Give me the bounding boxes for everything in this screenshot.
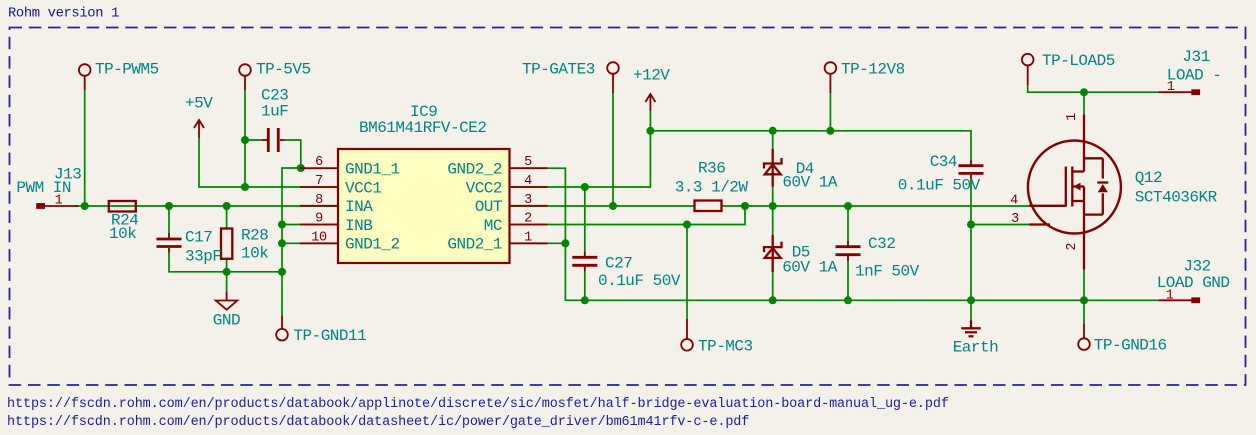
svg-text:1: 1 — [1065, 113, 1080, 121]
svg-text:33pF: 33pF — [185, 248, 221, 266]
svg-text:1: 1 — [55, 194, 63, 209]
svg-text:https://fscdn.rohm.com/en/prod: https://fscdn.rohm.com/en/products/datab… — [7, 415, 749, 430]
svg-text:2: 2 — [1065, 243, 1080, 251]
svg-text:TP-12V8: TP-12V8 — [841, 61, 905, 79]
svg-text:3: 3 — [524, 193, 532, 208]
svg-text:Rohm version 1: Rohm version 1 — [8, 6, 119, 22]
svg-text:GND2_2: GND2_2 — [447, 161, 502, 179]
svg-text:3: 3 — [1011, 212, 1019, 227]
svg-text:OUT: OUT — [475, 198, 502, 216]
svg-text:10: 10 — [311, 230, 327, 245]
svg-text:0.1uF 50V: 0.1uF 50V — [598, 272, 681, 290]
svg-text:TP-GND16: TP-GND16 — [1094, 337, 1167, 355]
svg-text:TP-LOAD5: TP-LOAD5 — [1042, 52, 1115, 70]
svg-text:4: 4 — [1010, 194, 1018, 209]
svg-text:+5V: +5V — [185, 95, 213, 113]
svg-text:BM61M41RFV-CE2: BM61M41RFV-CE2 — [359, 119, 486, 137]
svg-text:J32: J32 — [1183, 257, 1210, 275]
svg-text:1: 1 — [1167, 80, 1175, 95]
svg-text:C34: C34 — [930, 153, 957, 171]
svg-text:R28: R28 — [241, 227, 268, 245]
svg-text:7: 7 — [315, 174, 323, 189]
svg-text:SCT4036KR: SCT4036KR — [1135, 189, 1218, 207]
svg-text:2: 2 — [524, 212, 532, 227]
svg-text:GND: GND — [213, 312, 240, 330]
svg-text:1: 1 — [1166, 288, 1174, 303]
svg-text:1: 1 — [524, 230, 532, 245]
svg-text:PWM IN: PWM IN — [16, 179, 71, 197]
svg-text:1nF 50V: 1nF 50V — [855, 263, 920, 281]
svg-text:MC: MC — [484, 217, 502, 235]
svg-text:0.1uF 50V: 0.1uF 50V — [898, 177, 981, 195]
svg-text:C17: C17 — [185, 229, 212, 247]
svg-text:60V 1A: 60V 1A — [782, 259, 838, 277]
svg-text:GND1_1: GND1_1 — [345, 161, 400, 179]
svg-text:R36: R36 — [698, 160, 725, 178]
svg-text:C32: C32 — [868, 235, 895, 253]
svg-text:6: 6 — [315, 155, 323, 170]
svg-text:GND2_1: GND2_1 — [447, 236, 502, 254]
svg-text:C27: C27 — [605, 255, 632, 273]
svg-text:8: 8 — [315, 193, 323, 208]
svg-text:Q12: Q12 — [1135, 169, 1162, 187]
svg-text:https://fscdn.rohm.com/en/prod: https://fscdn.rohm.com/en/products/datab… — [7, 397, 949, 412]
svg-text:J31: J31 — [1182, 48, 1209, 66]
svg-text:10k: 10k — [109, 225, 136, 243]
svg-text:VCC1: VCC1 — [345, 179, 381, 197]
svg-text:TP-5V5: TP-5V5 — [256, 61, 311, 79]
svg-text:4: 4 — [524, 174, 532, 189]
svg-text:3.3 1/2W: 3.3 1/2W — [675, 179, 749, 197]
svg-text:TP-MC3: TP-MC3 — [698, 337, 753, 355]
svg-text:GND1_2: GND1_2 — [345, 236, 400, 254]
svg-text:1uF: 1uF — [261, 103, 288, 121]
svg-text:9: 9 — [315, 212, 323, 227]
svg-text:TP-PWM5: TP-PWM5 — [95, 61, 159, 79]
svg-text:TP-GATE3: TP-GATE3 — [522, 61, 595, 79]
svg-text:5: 5 — [524, 155, 532, 170]
svg-text:TP-GND11: TP-GND11 — [293, 327, 366, 345]
svg-text:VCC2: VCC2 — [466, 179, 502, 197]
svg-text:INA: INA — [345, 198, 373, 216]
svg-text:10k: 10k — [241, 245, 268, 263]
svg-text:Earth: Earth — [953, 338, 999, 356]
svg-text:INB: INB — [345, 217, 372, 235]
svg-text:+12V: +12V — [633, 67, 670, 85]
svg-text:LOAD -: LOAD - — [1167, 67, 1222, 85]
svg-text:60V 1A: 60V 1A — [782, 174, 838, 192]
